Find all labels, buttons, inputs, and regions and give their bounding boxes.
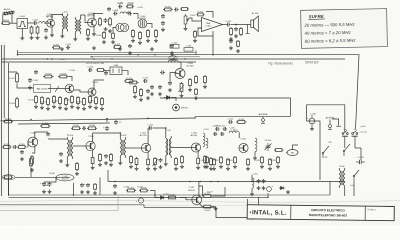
ground under R-314 (174, 167, 178, 171)
ground under R-409 (131, 39, 135, 43)
junction node 0 (17, 54, 19, 56)
capacitor C-522 (150, 85, 154, 89)
microphone MIC-501 (173, 104, 180, 111)
capacitor C-348 (86, 183, 90, 187)
junction node 9 (194, 117, 196, 119)
ground under C-414 (161, 28, 165, 32)
transistor T-304 (141, 143, 150, 152)
capacitor C-315 (228, 120, 233, 124)
capacitor C-308 (159, 158, 163, 162)
resistor R-414 (180, 8, 189, 11)
ground under C-420 (234, 34, 238, 38)
wire oval up (293, 145, 299, 150)
wire osc base (170, 72, 177, 74)
wire rail riser a (17, 50, 19, 55)
resistor R-324 (126, 189, 136, 192)
scan fold line 2 (0, 204, 262, 207)
ground C-347 (80, 190, 84, 194)
potentiometer P-401 (184, 14, 189, 27)
wire relay vertical c2 (355, 147, 361, 149)
junction bus dot a (189, 181, 191, 183)
wire low cluster (15, 176, 70, 178)
transistor T-307 (192, 195, 202, 205)
resistor R-330 (206, 156, 209, 164)
resistor R-327 (203, 195, 213, 198)
wire relay feed vertical (306, 116, 308, 121)
inductor L-401 (39, 22, 49, 24)
resistor R-527 (195, 88, 198, 95)
junction bus dot c (217, 181, 219, 183)
ground under R-405 (86, 37, 90, 41)
ground under R-420 (102, 40, 106, 44)
junction node 5 (212, 54, 214, 56)
resistor R-523 (195, 75, 198, 84)
ground under R-318 (209, 167, 213, 171)
ground R-338 (276, 165, 280, 169)
resistor R-515 (65, 97, 68, 106)
ground under R-515 (64, 107, 68, 111)
resistor R-320 (274, 149, 284, 152)
trimmer capacitor CV-301 (265, 143, 272, 151)
wire relay section left leg (319, 140, 321, 180)
junction node 1 (51, 58, 53, 60)
wire riser x73 (73, 183, 75, 195)
capacitor C-501 (28, 78, 32, 83)
ground under R-526 (203, 85, 207, 89)
ground under R-522 (188, 88, 192, 92)
capacitor C-427 (128, 44, 132, 48)
ground R-328 (93, 191, 97, 195)
ground under C-304 (59, 159, 63, 163)
handwritten note box (301, 9, 388, 49)
resistor R-408 (112, 32, 115, 39)
ground under R-521 (133, 95, 137, 99)
resistor R-407 (109, 17, 112, 27)
resistor R-421 (52, 46, 61, 49)
wire T-307 emitter (200, 204, 203, 207)
ground C-348 (86, 190, 90, 194)
wire bottom bus left (1, 118, 196, 121)
component box C-425 (170, 45, 179, 49)
resistor R-416 (230, 27, 233, 36)
wire T-301 collector (35, 132, 48, 138)
capacitor C-413 (161, 14, 165, 19)
ground under C-407 (104, 27, 108, 31)
resistor R-520 (124, 80, 135, 83)
wire TR-303 bottom (165, 158, 167, 162)
capacitor C-411 (107, 7, 111, 11)
wire relay vertical a2 (344, 136, 346, 148)
ground under R-412 (154, 39, 158, 43)
resistor R-303 (17, 146, 27, 149)
wire top supply rail (18, 51, 197, 55)
wire antena feeder (307, 105, 345, 129)
ground under R-418 (236, 49, 240, 53)
capacitor C-312 (148, 126, 153, 130)
wire bottom bus 3 (9, 193, 269, 197)
wire amp input bottom (198, 27, 202, 29)
resistor R-504 (16, 97, 19, 109)
scan shading bottom strip (0, 199, 400, 225)
wire title block feed (258, 197, 260, 205)
ground R-329 (214, 207, 218, 211)
ground under RFC (253, 156, 257, 160)
inductor L-301 (203, 133, 205, 147)
wire L-402 bottom to ground (61, 32, 63, 35)
wire TR-302 to T-304 (126, 147, 142, 149)
resistor R-311 (135, 157, 138, 166)
ground R-333 (226, 167, 230, 171)
wire r322 (30, 168, 32, 177)
capacitor C-302 (20, 150, 24, 154)
junction rail d2 (91, 56, 92, 57)
resistor R-411 (147, 29, 150, 38)
inductor L-404 (120, 12, 130, 14)
ground under R-514 (58, 106, 62, 110)
wire T-503 to T-504 (74, 90, 88, 92)
ground under C-526 (146, 96, 150, 100)
ground under R-521 (100, 107, 104, 111)
capacitor C-345 (262, 179, 266, 183)
resistor R-401 (1, 22, 11, 25)
capacitor C-331 electrolytic (356, 160, 365, 164)
junction rail d1 (47, 58, 48, 59)
transformer TR-302 (120, 137, 125, 158)
inductor L-304 (206, 138, 208, 148)
wire relay vertical a (344, 129, 346, 133)
ground R-334 (233, 165, 237, 169)
resistor R-314 (175, 157, 178, 166)
wire left third vertical (8, 63, 10, 196)
ground R-337 (268, 167, 272, 171)
resistor R-345 (71, 127, 81, 130)
capacitor C-412 (174, 8, 179, 12)
ground R-336 (260, 165, 264, 169)
resistor R-316 (197, 157, 200, 165)
junction node 16 (165, 127, 167, 129)
transistor T-503 (65, 84, 74, 93)
junction node 2 (93, 58, 95, 60)
resistor R-304 (31, 155, 34, 166)
wire C-312 to TR-303 (153, 128, 166, 136)
resistor R-513 (53, 95, 56, 104)
capacitor C-524 (160, 71, 165, 75)
ground R-331 (212, 167, 216, 171)
handwritten figure caption (268, 61, 319, 66)
wire C-306 top (106, 119, 108, 122)
capacitor C-316 (213, 132, 217, 136)
capacitor C-341 (42, 182, 46, 187)
wire T-301 emitter (32, 146, 35, 153)
ground under R-313 (153, 167, 157, 171)
wire bottom bus left 2 (18, 123, 110, 124)
junction node 15 (120, 132, 122, 134)
resistor R-502 (43, 75, 54, 78)
resistor R-403 (36, 26, 39, 35)
wire L-505 to T-505 (178, 62, 181, 68)
resistor R-409 (132, 29, 135, 38)
transistor T-403 dual circle (116, 23, 129, 31)
transistor T-401 (47, 19, 55, 27)
diode D-302 (158, 196, 166, 200)
ground under C-501 (28, 86, 32, 90)
capacitor C-503 (88, 68, 92, 72)
wire T-304 collector top (147, 128, 149, 144)
junction rail d5 (184, 58, 185, 59)
ground under R-410 (138, 41, 142, 45)
junction node 12 (199, 181, 201, 183)
wire R-329 out (212, 206, 216, 208)
wire diode node (172, 98, 176, 102)
junction node 3 (137, 54, 139, 56)
wire T-302 emitter (92, 150, 94, 156)
wire TR-301 to T-302 (73, 145, 86, 147)
capacitor C-410 (118, 5, 122, 9)
wire L-305 down (251, 188, 253, 192)
wire speaker feed (240, 24, 251, 26)
wire xtal right (122, 71, 128, 75)
trimmer arrow silencer (55, 86, 59, 92)
wire RFC down (254, 152, 256, 156)
resistor R-511 (41, 96, 44, 105)
wire C-419 to speaker node (231, 24, 240, 26)
wire T-503 base (62, 88, 65, 90)
wire amp top supply (206, 12, 213, 18)
ground under R-308 (98, 163, 102, 167)
wire TR-301 bottom (66, 159, 68, 163)
wire rail to relay feeder (196, 55, 359, 129)
junction node 7 (106, 118, 108, 120)
resistor R-405 (87, 28, 90, 37)
ground under C-342 (48, 190, 52, 194)
resistor R-308 (99, 153, 102, 162)
transistor T-504 (88, 88, 96, 96)
wire antena corner drop (332, 119, 339, 126)
capacitor C-351 (113, 184, 117, 188)
resistor R-510 (35, 95, 38, 104)
ground under C-421 (229, 46, 233, 50)
resistor R-525 (140, 88, 143, 97)
capacitor C-419 (226, 23, 231, 27)
wire L-403 to T-402 base (81, 15, 85, 18)
ground under R-517 (76, 106, 80, 110)
resistor R-521 (134, 85, 137, 94)
wire riser x330 (329, 182, 331, 196)
junction rail d3 (111, 58, 112, 59)
resistor R-503 (58, 75, 69, 78)
inductor L-303 RFC (255, 138, 257, 152)
wire T-307 collector (198, 182, 200, 196)
resistor R-322 (30, 157, 33, 168)
ground under R-315 (180, 165, 184, 169)
capacitor C-305 (104, 154, 108, 158)
wire osc base down (169, 73, 171, 82)
wire sheet bottom border (0, 204, 144, 206)
wire left border vertical 2 (3, 45, 5, 118)
wire transformer drop (344, 188, 346, 196)
ground under C-423 (170, 51, 174, 55)
ground stub row a (60, 47, 64, 51)
transistor T-306 (239, 143, 248, 152)
relay contact S-2 (352, 131, 358, 137)
wire interconnect lower (195, 115, 291, 117)
inductor L-505 (168, 60, 178, 62)
wire amp output (223, 24, 227, 26)
ground under R-312 (146, 167, 150, 171)
transistor T-505 (175, 69, 185, 79)
transistor T-305 (191, 143, 200, 152)
wire bal silen node (48, 88, 62, 90)
wire bottom return a (144, 199, 248, 218)
wire T-302 to TR-302 (93, 133, 121, 142)
diode D-303 zener (279, 186, 285, 189)
ground under R-304 (30, 168, 34, 172)
resistor R-422 (113, 46, 122, 49)
capacitor C-313 (215, 127, 220, 131)
wire speaker return drop (247, 25, 249, 34)
oval label C-340 (2, 175, 15, 180)
ground under R-518 (82, 107, 86, 111)
junction node 8 (147, 117, 149, 119)
handwritten note line 2 (305, 30, 352, 36)
resistor R-317 (204, 155, 207, 164)
capacitor C-414 (161, 21, 165, 26)
capacitor C-409 (128, 12, 132, 16)
corner drop foot (336, 125, 341, 127)
transistor T-402 (88, 18, 97, 27)
junction bus dot b (210, 181, 212, 183)
resistor R-402 (30, 26, 33, 35)
ground under R-511 (40, 106, 44, 110)
capacitor C-521 (143, 79, 148, 83)
junction node 18 (93, 13, 95, 15)
ground L-305 (250, 192, 254, 196)
P-502 wiper arrow (179, 85, 185, 92)
wire amp input top (198, 20, 202, 22)
ground under R-513 (52, 105, 56, 109)
capacitor C-420 (234, 27, 238, 31)
ground under L-403 (73, 37, 77, 41)
wire T-401 collector up (52, 15, 62, 21)
wire R-503 to T-503 (69, 77, 72, 82)
resistor R-335 (247, 158, 250, 166)
switch SW-1 (322, 146, 329, 158)
ground under R-402 (30, 36, 34, 40)
wire bottom bus 2 (9, 194, 331, 196)
wire bottom return b (143, 205, 145, 208)
ground under R-407 (108, 29, 112, 33)
resistor R-516 (71, 95, 74, 104)
ground under C-522 (150, 92, 154, 96)
ground C-344 (257, 186, 261, 190)
wire TR-302 bottom lead (119, 158, 121, 161)
resistor R-309 (110, 153, 113, 162)
resistor R-333 (227, 158, 230, 166)
filter F-401 (17, 19, 28, 29)
ground under R-516 (70, 105, 74, 109)
wire bottom bus 1 (108, 181, 345, 183)
ground under R-316 (196, 166, 200, 170)
capacitor C-347 (80, 183, 84, 187)
wire T-402 collector (94, 14, 103, 20)
resistor R-315 (181, 155, 184, 164)
wire modulator link (150, 191, 158, 198)
oval label C-440 (169, 56, 177, 60)
capacitor C-342 (48, 182, 52, 187)
ground under R-512 (46, 107, 50, 111)
ground under R-408 (111, 40, 115, 44)
ground under C-330 (310, 127, 314, 131)
ground C-351 (113, 191, 117, 195)
wire relay section stub (307, 121, 321, 140)
ground under C-427 (128, 51, 132, 55)
wire cluster feed (251, 175, 253, 182)
resistor R-410 (139, 31, 142, 40)
wire R-401 to F-401 (11, 22, 17, 24)
ground stub row c (118, 47, 122, 51)
wire bottom return c (0, 196, 118, 211)
capacitor C-301 (13, 145, 17, 149)
ground stub row d (150, 47, 154, 51)
ground under R-311 (135, 167, 139, 171)
capacitor C-330 electrolytic (309, 115, 315, 127)
capacitor C-408 (113, 12, 118, 16)
resistor R-306 (76, 162, 79, 171)
inductor L-302 (229, 131, 239, 133)
op-amp U-401 TAA300 (202, 18, 223, 32)
wire TR-303 to T-305 (171, 147, 191, 149)
switch SW-3 (353, 170, 359, 182)
transistor T-301 (28, 137, 38, 147)
wire sw3 drop (353, 182, 355, 196)
component box C-426 (184, 48, 193, 52)
title block frame (247, 205, 394, 221)
ground under P-502 (180, 94, 184, 98)
ground under R-430 (193, 39, 197, 43)
antenna AN-401 (3, 11, 15, 16)
antenna jack (328, 125, 332, 130)
resistor R-325 (139, 189, 149, 192)
antenna connector 2 (261, 116, 265, 123)
wire R-327 out (212, 187, 225, 196)
capacitor C-504 (104, 71, 108, 75)
wire bottom bus 2 riser (8, 177, 10, 195)
junction node 17 (235, 24, 237, 26)
ground stub row b (92, 46, 96, 50)
wire amp feedback (198, 28, 213, 36)
wire xtal left (104, 70, 110, 72)
capacitor C-350 (82, 126, 86, 130)
wire TR-301 in (48, 138, 67, 140)
junction node 13 (251, 181, 253, 183)
resistor R-430 (194, 30, 197, 38)
ground under R-411 (146, 39, 150, 43)
resistor R-406 (99, 17, 102, 27)
handwritten note title (308, 14, 325, 20)
resistor R-305 (40, 125, 51, 128)
wire third rail (2, 61, 197, 63)
resistor R-326 (167, 196, 177, 199)
wire R-501 to silencer (17, 84, 34, 88)
ground under C-341 (42, 190, 46, 194)
wire T-403 leads (113, 28, 116, 33)
ground C-345 (262, 186, 266, 190)
ground under F-401 (20, 36, 24, 40)
resistor R-520 (95, 96, 98, 105)
junction rail d4 (154, 54, 155, 55)
resistor R-337 (269, 158, 272, 166)
resistor R-521 (101, 97, 104, 106)
